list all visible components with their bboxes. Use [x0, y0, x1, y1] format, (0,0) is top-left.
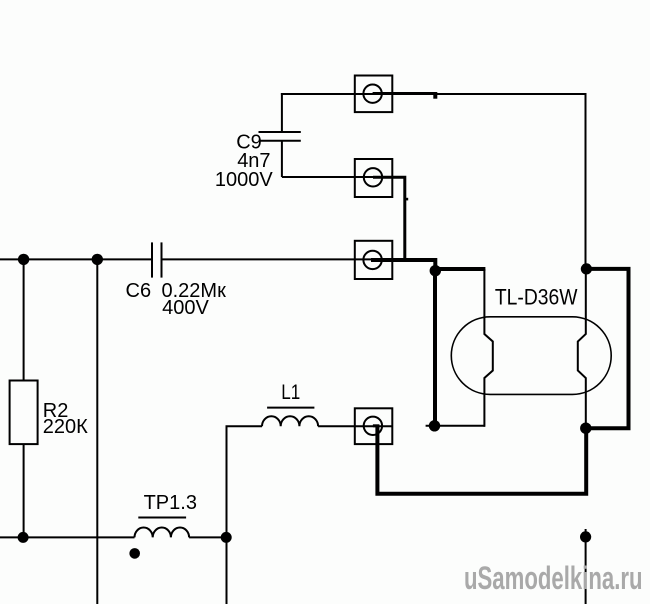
node bottom bus junction at R2	[18, 532, 29, 543]
watermark uSamodelkina.ru	[464, 560, 643, 596]
label C6 voltage 400V	[162, 297, 209, 319]
svg-text:C6: C6	[126, 280, 152, 302]
label C9	[236, 132, 262, 154]
wire main bus left of C6	[0, 258, 151, 260]
TP1.3 core bar	[138, 517, 186, 519]
node bus junction at second vertical	[92, 254, 103, 265]
node bottom bus right junction	[221, 532, 232, 543]
lamp right filament	[578, 269, 586, 428]
wire bottom bus left	[0, 536, 135, 538]
label C6	[126, 280, 152, 302]
node thick junction left of lamp	[430, 265, 441, 276]
wire R2 top lead	[23, 259, 25, 380]
label L1	[281, 381, 300, 404]
terminal 3 square	[355, 241, 393, 279]
svg-text:TP1.3: TP1.3	[144, 492, 197, 514]
wire from L1 down to bottom bus and below	[226, 426, 228, 604]
label R2 value 220K	[43, 416, 88, 438]
wire second vertical	[96, 259, 98, 604]
label C9 value 4n7	[237, 150, 270, 172]
wire L1 left lead	[226, 425, 263, 427]
svg-text:uSamodelkina.ru: uSamodelkina.ru	[464, 560, 643, 596]
terminal 1 circle	[363, 85, 381, 103]
inductor L1	[262, 416, 318, 426]
wire thick right bypass	[586, 269, 629, 428]
label TL-D36W	[495, 285, 578, 310]
inductor TP1.3 winding	[135, 528, 190, 538]
svg-text:1000V: 1000V	[215, 169, 273, 191]
label C9 voltage 1000V	[215, 169, 273, 191]
wire junction to lamp left filament bottom	[426, 425, 485, 427]
label TP1.3	[144, 492, 197, 514]
terminal 2 pin	[373, 176, 408, 261]
terminal 3 pin thick run to elbow	[371, 258, 435, 271]
svg-text:L1: L1	[281, 381, 300, 404]
TP1.3 phase dot	[129, 548, 140, 559]
terminal 4 circle	[364, 417, 382, 435]
capacitor C9	[259, 132, 301, 141]
capacitor C6	[152, 242, 162, 277]
wire bottom bus right of TP1.3	[189, 536, 226, 538]
capacitor C9 bottom lead	[282, 141, 392, 177]
label C6 value 0.22Mk	[162, 280, 227, 302]
terminal 4 square	[355, 408, 393, 444]
node bus junction at R2	[18, 254, 29, 265]
node isolated dot lower right	[580, 529, 591, 604]
terminal 2 square	[355, 159, 393, 197]
wire thick junction to lamp left filament	[435, 267, 485, 271]
lamp left filament	[484, 269, 492, 427]
terminal 3 circle	[363, 251, 381, 269]
capacitor C9 top lead	[281, 93, 283, 132]
terminal 2 circle	[364, 168, 382, 186]
L1 core bar	[267, 407, 314, 409]
label R2	[43, 400, 69, 422]
svg-text:TL-D36W: TL-D36W	[495, 285, 578, 310]
wire thick left vertical	[433, 271, 437, 426]
node bottom-right lamp junction	[580, 423, 591, 434]
wire right vertical drop	[585, 93, 587, 269]
terminal 1 square	[355, 76, 393, 113]
node top-right junction	[581, 263, 592, 274]
wire L1 to terminal 4	[318, 425, 392, 427]
terminal 4 pin and thick bottom run	[373, 424, 586, 496]
lamp TL-D36W outline	[451, 317, 611, 395]
resistor R2	[10, 381, 38, 445]
terminal 1 pin	[373, 94, 438, 99]
wire top bus from C9 to right side	[281, 93, 586, 95]
wire main bus C6 to terminal 3	[162, 258, 392, 260]
wire R2 bottom lead	[23, 444, 25, 537]
svg-text:220К: 220К	[43, 416, 88, 438]
svg-text:400V: 400V	[162, 297, 209, 319]
node bottom-left lamp junction	[429, 420, 440, 431]
